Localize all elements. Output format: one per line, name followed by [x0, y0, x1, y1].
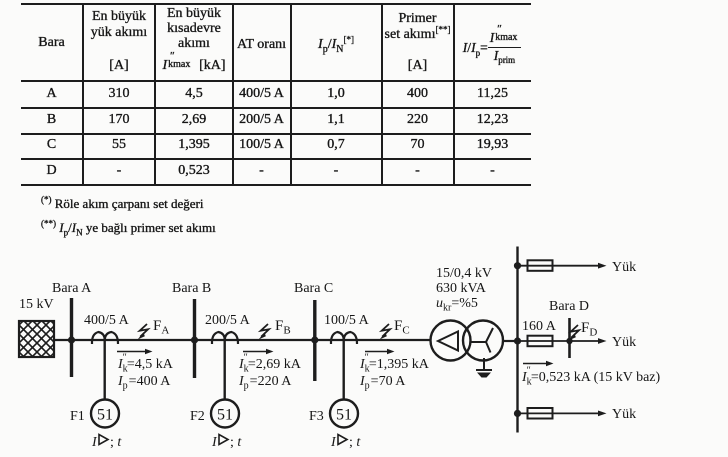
- wire: CT C to relay F3: [343, 340, 345, 399]
- svg-text:15 kV: 15 kV: [19, 297, 54, 312]
- svg-text:Ik″=0,523 kA (15 kV baz): Ik″=0,523 kA (15 kV baz): [521, 366, 661, 388]
- svg-text:ukr=%5: ukr=%5: [436, 296, 478, 314]
- wire: transformer to LV bus: [503, 340, 518, 342]
- fault F_C bolt: [380, 318, 410, 340]
- junction dot at Bara C: [311, 336, 318, 343]
- busbar Bara B: [172, 281, 211, 378]
- relay F1 (51): [70, 400, 119, 428]
- svg-text:F2: F2: [190, 409, 205, 424]
- value label Ik"=4,5 kA: [117, 353, 174, 375]
- wire: bottom load branch: [518, 411, 607, 417]
- load label Yük (bottom): [612, 407, 636, 422]
- current arrow at B: [243, 349, 274, 354]
- junction dot at Bara B: [191, 336, 198, 343]
- svg-text:I: I: [91, 435, 98, 450]
- svg-text:160 A: 160 A: [522, 319, 557, 334]
- svg-text:Bara C: Bara C: [294, 281, 333, 296]
- svg-text:FC: FC: [394, 318, 410, 337]
- svg-text:Ik″=4,5 kA: Ik″=4,5 kA: [117, 353, 174, 375]
- footnotes: [41, 196, 203, 212]
- fault F_B bolt: [259, 318, 291, 340]
- svg-text:630 kVA: 630 kVA: [436, 281, 487, 296]
- current arrow at D: [523, 361, 554, 366]
- wire: CT B to relay F2: [223, 340, 225, 399]
- transformer T1 15/0,4 kV 630 kVA: [431, 266, 504, 361]
- vertical lines: [82, 3, 84, 186]
- svg-text:I: I: [330, 435, 337, 450]
- horizontal lines: [21, 3, 531, 5]
- header texts: [21, 35, 82, 51]
- svg-text:200/5 A: 200/5 A: [205, 313, 251, 328]
- CT 100/5 A: [324, 313, 370, 344]
- svg-text:15/0,4 kV: 15/0,4 kV: [436, 266, 492, 281]
- load label Yük (middle): [612, 335, 636, 350]
- data rows: [21, 86, 82, 102]
- svg-text:F1: F1: [70, 409, 85, 424]
- CT 400/5 A: [84, 313, 130, 344]
- value label Ik"=1,395 kA: [359, 353, 430, 375]
- svg-text:Ip=400 A: Ip=400 A: [117, 374, 171, 392]
- busbar Bara A: [52, 281, 92, 377]
- svg-text:Yük: Yük: [612, 260, 636, 275]
- svg-text:FA: FA: [153, 318, 169, 337]
- svg-text:Ik″=1,395 kA: Ik″=1,395 kA: [359, 353, 430, 375]
- svg-text:FD: FD: [581, 320, 597, 339]
- svg-text:Bara D: Bara D: [549, 299, 589, 314]
- LV distribution bus: [516, 247, 518, 433]
- current arrow at C: [365, 349, 395, 354]
- value label Ik"=0,523 kA (15 kV baz): [521, 366, 661, 388]
- svg-text:; t: ; t: [230, 435, 242, 450]
- svg-text:Ip=70 A: Ip=70 A: [359, 374, 406, 392]
- svg-text:100/5 A: 100/5 A: [324, 313, 370, 328]
- value label Ik"=2,69 kA: [238, 353, 302, 375]
- fault F_D bolt: [569, 320, 598, 341]
- wire: main feeder Bara A - transformer: [54, 339, 431, 341]
- junction dot LV bus main: [514, 337, 521, 344]
- relay F3 characteristic I>; t: [330, 435, 361, 451]
- wire: top load branch: [518, 263, 607, 269]
- svg-text:51: 51: [336, 407, 352, 424]
- svg-text:I: I: [211, 435, 218, 450]
- svg-text:Yük: Yük: [612, 407, 636, 422]
- load label Yük (top): [612, 260, 636, 275]
- wire: middle load branch: [518, 338, 607, 344]
- wire: CT A to relay F1: [103, 340, 105, 399]
- relay F3 (51): [309, 400, 358, 428]
- svg-text:Bara A: Bara A: [52, 281, 92, 296]
- svg-text:Bara B: Bara B: [172, 281, 211, 296]
- fault F_A bolt: [138, 318, 170, 340]
- junction dot Bara D: [566, 338, 572, 344]
- relay F2 (51): [190, 400, 239, 428]
- fuse top branch: [528, 260, 553, 271]
- svg-text:FB: FB: [275, 318, 291, 337]
- svg-text:51: 51: [97, 407, 113, 424]
- relay F2 characteristic I>; t: [211, 435, 242, 451]
- value label Ip=400 A: [117, 374, 171, 392]
- fuse bottom branch: [528, 408, 553, 419]
- CT 200/5 A: [205, 313, 251, 344]
- svg-text:; t: ; t: [110, 435, 122, 450]
- svg-text:400/5 A: 400/5 A: [84, 313, 130, 328]
- value label Ip=70 A: [359, 374, 406, 392]
- svg-text:Ik″=2,69 kA: Ik″=2,69 kA: [238, 353, 302, 375]
- junction dot top branch: [514, 262, 521, 269]
- fuse 160 A (middle branch): [522, 319, 557, 346]
- relay F1 characteristic I>; t: [91, 435, 122, 451]
- svg-text:Ip=220 A: Ip=220 A: [238, 374, 292, 392]
- junction dot bottom branch: [514, 410, 521, 417]
- svg-text:; t: ; t: [349, 435, 361, 450]
- svg-text:51: 51: [217, 407, 233, 424]
- svg-text:F3: F3: [309, 409, 324, 424]
- current arrow at A: [117, 349, 153, 354]
- value label Ip=220 A: [238, 374, 292, 392]
- transformer neutral ground: [476, 358, 492, 378]
- busbar Bara C: [294, 281, 333, 381]
- svg-text:Yük: Yük: [612, 335, 636, 350]
- busbar Bara D: [549, 299, 589, 358]
- source 15 kV (hatched box): [0, 289, 86, 387]
- junction dot at Bara A: [68, 336, 75, 343]
